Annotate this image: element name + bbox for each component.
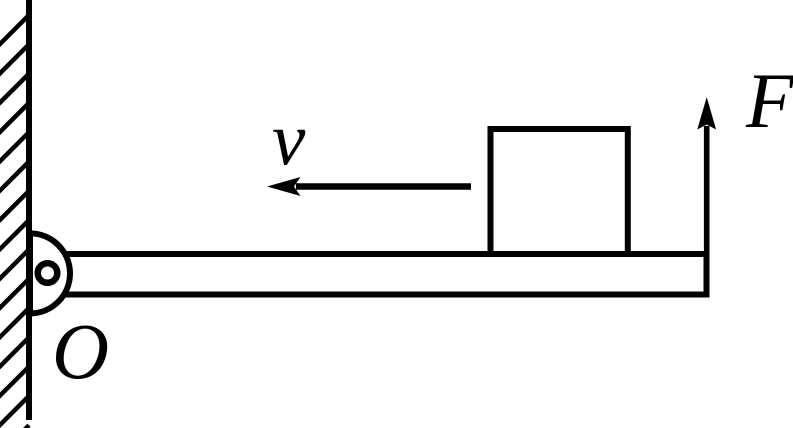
force arrowhead <box>697 97 716 130</box>
beam (horizontal rod) <box>29 254 707 295</box>
svg-text:O: O <box>52 309 109 396</box>
block on beam <box>491 129 628 254</box>
pivot semicircle at wall <box>30 233 70 313</box>
wall line <box>26 0 32 420</box>
velocity arrow shaft <box>296 183 471 190</box>
force arrow shaft <box>704 126 710 254</box>
velocity arrowhead <box>267 177 301 196</box>
svg-text:v: v <box>272 99 306 182</box>
wall hatching <box>0 15 29 428</box>
pivot pin (small ring) <box>38 263 58 283</box>
svg-text:F: F <box>745 57 793 144</box>
